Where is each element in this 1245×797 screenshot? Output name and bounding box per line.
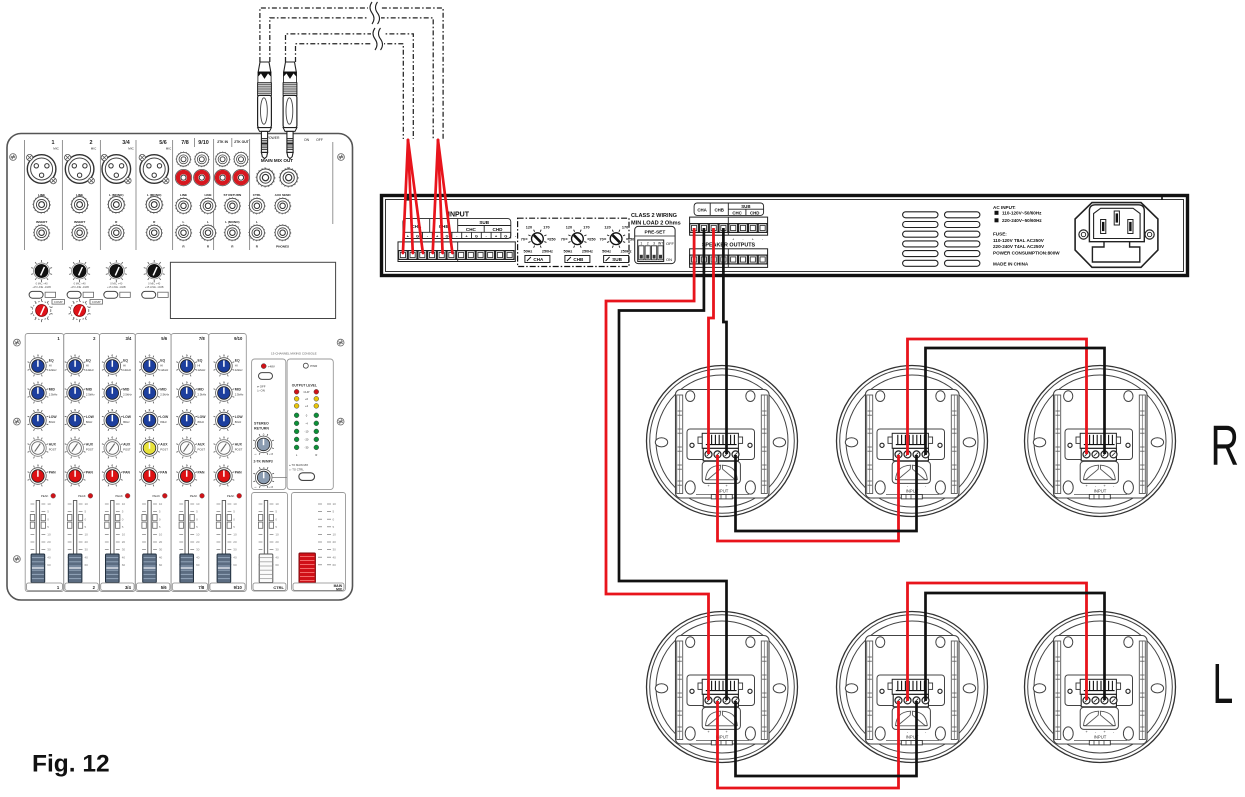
svg-text:12kHz: 12kHz <box>198 368 207 372</box>
svg-text:AUX: AUX <box>198 443 206 447</box>
svg-text:0 MIC +40: 0 MIC +40 <box>74 282 87 286</box>
mixer insert/R jack x=116.3 <box>108 224 125 241</box>
svg-text:AUX: AUX <box>49 443 57 447</box>
cable break symbol on cable L <box>368 3 381 23</box>
amp input screw 9 <box>476 251 485 260</box>
mixer fader CH3/4 <box>105 501 126 583</box>
svg-text:2.5kHz: 2.5kHz <box>160 393 169 397</box>
mixer fader label plate 2 <box>65 583 98 590</box>
mixer row labels MID <box>49 388 244 397</box>
amp speaker output terminal row 2 <box>690 249 768 268</box>
svg-text:G: G <box>475 233 478 238</box>
shielded cable L inner conductor <box>270 18 433 139</box>
svg-text:AUX: AUX <box>160 443 168 447</box>
TRS jack plug R <box>283 62 297 159</box>
svg-text:80Hz: 80Hz <box>86 420 93 424</box>
mixer jack 2TK IN L <box>215 152 230 167</box>
amp input screw 1 <box>399 251 408 260</box>
mixer fader CH9/10 <box>216 501 237 583</box>
svg-text:7/8: 7/8 <box>199 336 205 341</box>
mixer row labels EQ <box>49 359 244 373</box>
svg-text:ON: ON <box>304 138 310 142</box>
svg-text:5/6: 5/6 <box>161 585 167 590</box>
mixer fader label plate 5/6 <box>137 583 170 590</box>
svg-text:30: 30 <box>333 548 337 552</box>
svg-text:POWER CONSUMPTION:800W: POWER CONSUMPTION:800W <box>993 250 1060 255</box>
svg-text:2.5kHz: 2.5kHz <box>198 393 207 397</box>
svg-text:110-120V T8AL AC250V: 110-120V T8AL AC250V <box>993 238 1045 243</box>
mixer insert/R jack x=282.6 <box>274 224 291 241</box>
amp input screw 11 <box>496 251 505 260</box>
svg-text:2TK OUT: 2TK OUT <box>234 140 249 144</box>
svg-text:13-CHANNEL MIXING CONSOLE: 13-CHANNEL MIXING CONSOLE <box>271 352 317 356</box>
amp speaker output screw r1-5 <box>729 224 738 233</box>
mixer meter sub-panel <box>287 359 333 490</box>
mixer insert/R jack x=183.5 <box>175 224 192 241</box>
mixer peak LEDs <box>41 493 242 498</box>
amp crossover section (dashed box) <box>518 218 629 266</box>
svg-text:PAN: PAN <box>86 471 93 475</box>
svg-text:2.5kHz: 2.5kHz <box>235 393 244 397</box>
mixer MID knob CH2 <box>65 383 86 404</box>
svg-text:OUTPUT LEVEL: OUTPUT LEVEL <box>292 384 317 388</box>
mixer LOW knob CH1 <box>28 410 49 431</box>
svg-text:2.5kHz: 2.5kHz <box>49 393 58 397</box>
amp input screw 8 <box>466 251 475 260</box>
svg-text:FUSE:: FUSE: <box>993 232 1007 237</box>
amp speaker output screw r2-5 <box>729 255 738 264</box>
svg-text:+15 LINE -10dB: +15 LINE -10dB <box>145 285 164 289</box>
mixer phantom/return sub-panel <box>252 359 286 490</box>
svg-text:HI: HI <box>123 364 126 368</box>
svg-text:50Hz: 50Hz <box>523 250 532 254</box>
mixer XLR mic input CH4 <box>139 154 169 183</box>
svg-text:12kHz: 12kHz <box>123 368 132 372</box>
shielded cable L (mixer MAIN OUT L to amp) outer conductor <box>260 8 443 139</box>
svg-text:POST: POST <box>49 448 57 452</box>
mixer MAIN MIX strip <box>292 493 346 592</box>
mixer screw at 340.6,342.6 <box>337 339 344 346</box>
svg-text:POST: POST <box>235 448 243 452</box>
mixer PAN knob CH3/4 <box>102 466 123 487</box>
svg-text:CHA: CHA <box>533 257 544 262</box>
amp dip switch 2 <box>645 246 650 260</box>
svg-text:+4: +4 <box>305 404 309 408</box>
amp speaker output screw r2-6 <box>739 255 748 264</box>
svg-text:2TK IN: 2TK IN <box>217 140 228 144</box>
svg-text:50Hz: 50Hz <box>602 250 611 254</box>
svg-text:PEAK: PEAK <box>153 494 161 498</box>
svg-text:SUB: SUB <box>741 204 750 209</box>
svg-text:G: G <box>416 233 419 238</box>
svg-text:EQ: EQ <box>86 359 91 363</box>
mixer screw at 13,157 <box>10 154 17 161</box>
svg-text:7/8: 7/8 <box>181 140 189 146</box>
mixer RCA jack 7/8 R <box>175 169 191 185</box>
svg-text:170: 170 <box>543 226 549 230</box>
svg-text:L (MONO): L (MONO) <box>225 220 239 224</box>
mixer LOW knob CH7/8 <box>176 410 197 431</box>
svg-text:+: + <box>752 238 754 242</box>
amp speaker output screw r2-4 <box>719 255 728 264</box>
mixer line input jack x=116.3 <box>108 196 126 214</box>
mixer blank panel box <box>170 262 335 318</box>
svg-text:EQ: EQ <box>123 359 128 363</box>
svg-text:R: R <box>1211 415 1240 478</box>
wire black: speaker L2 terminal 4 to speaker L3 terminal 3 <box>926 593 1105 701</box>
amp speaker output screw r1-8 <box>758 224 767 233</box>
amp ventilation slots <box>903 212 938 218</box>
svg-text:OFF: OFF <box>316 138 323 142</box>
mixer aux row jack x=183.5 <box>175 198 192 215</box>
mixer MID knob CH7/8 <box>176 383 197 404</box>
svg-text:9/10: 9/10 <box>234 585 243 590</box>
mixer AUX knob CH2 <box>65 438 86 459</box>
wire CHA+ red: amp to speaker L1 terminal 1 <box>606 228 709 700</box>
svg-text:80Hz: 80Hz <box>198 420 205 424</box>
svg-text:+: + <box>732 238 734 242</box>
mixer PAN knob CH2 <box>65 466 86 487</box>
mixer aux row jack x=232.4 <box>224 198 241 215</box>
svg-text:-30: -30 <box>305 446 309 450</box>
svg-text:MIX: MIX <box>336 587 343 591</box>
wire black: speaker R1 terminal 4 to speaker R2 terminal 3 <box>736 455 917 531</box>
mixer RCA jack 9/10 R <box>194 169 210 185</box>
mixer AUX knob CH9/10 <box>214 438 235 459</box>
ceiling speaker R1 <box>647 366 798 517</box>
mixer fader CH7/8 <box>179 501 200 583</box>
mixer CTRL strip <box>252 493 288 592</box>
amp speaker output screw r1-1 <box>690 224 699 233</box>
mixer insert/R jack x=79.6 <box>71 224 88 241</box>
mixer strip number labels top <box>57 336 243 341</box>
svg-text:INSERT: INSERT <box>36 220 47 224</box>
svg-text:MID: MID <box>235 388 242 392</box>
amp input channel label table <box>403 219 511 239</box>
mixer EQ knob CH2 <box>65 356 86 377</box>
svg-text:120: 120 <box>526 226 532 230</box>
amp speaker output screw r1-2 <box>700 224 709 233</box>
amp PRE-SET dip switch box <box>635 226 675 263</box>
svg-text:250Hz: 250Hz <box>582 250 593 254</box>
svg-text:250Hz: 250Hz <box>542 250 553 254</box>
mixer MID knob CH3/4 <box>102 383 123 404</box>
svg-text:ST RETURN: ST RETURN <box>224 193 242 197</box>
svg-text:250Hz: 250Hz <box>621 250 632 254</box>
svg-text:120: 120 <box>566 226 572 230</box>
ceiling speaker L2 <box>837 612 988 763</box>
svg-text:PAN: PAN <box>49 471 56 475</box>
svg-text:AUX: AUX <box>123 443 131 447</box>
mixer insert/R jack x=41.6 <box>33 224 50 241</box>
shielded cable R inner conductor <box>296 44 404 139</box>
svg-text:L: L <box>1213 653 1234 716</box>
svg-text:220-240V T4AL AC250V: 220-240V T4AL AC250V <box>993 244 1045 249</box>
svg-text:INPUT: INPUT <box>448 212 470 219</box>
svg-text:ON: ON <box>666 257 672 262</box>
svg-text:2.5kHz: 2.5kHz <box>123 393 132 397</box>
svg-text:12kHz: 12kHz <box>235 368 244 372</box>
svg-text:LOW: LOW <box>160 415 169 419</box>
svg-text:LOW: LOW <box>86 415 95 419</box>
svg-text:MID: MID <box>86 388 93 392</box>
svg-text:+6: +6 <box>305 397 309 401</box>
wire black: speaker L1 terminal 4 to speaker L2 terminal 3 <box>736 701 917 776</box>
amp input screw 6 <box>447 251 456 260</box>
svg-text:3/4: 3/4 <box>125 336 131 341</box>
amp speaker output screw r1-6 <box>739 224 748 233</box>
mixer fader CH5/6 <box>142 501 163 583</box>
svg-text:PAN: PAN <box>235 471 242 475</box>
wire red: speaker R1 terminal 2 to speaker R2 terminal 1 <box>718 455 899 541</box>
mixer LOW knob CH3/4 <box>102 410 123 431</box>
mixer AUX knob CH1 <box>28 438 49 459</box>
mixer gain knob CH3 <box>106 260 127 282</box>
svg-text:LINE: LINE <box>204 193 211 197</box>
svg-text:EQ: EQ <box>235 359 240 363</box>
svg-text:G: G <box>504 233 507 238</box>
amp input screw 7 <box>457 251 466 260</box>
amp input screw 12 <box>505 251 514 260</box>
svg-text:10: 10 <box>333 502 337 506</box>
mixer fader label plate 3/4 <box>101 583 134 590</box>
mixer gain knob CH2 <box>69 260 90 282</box>
svg-text:250: 250 <box>589 238 595 242</box>
svg-text:PWR: PWR <box>310 364 318 368</box>
svg-text:0 MIC +40: 0 MIC +40 <box>148 282 161 286</box>
svg-text:LOW: LOW <box>198 415 207 419</box>
svg-text:MIN LOAD 2 Ohms: MIN LOAD 2 Ohms <box>631 221 681 227</box>
svg-text:CHC: CHC <box>466 227 477 232</box>
svg-text:CTRL: CTRL <box>273 585 284 590</box>
svg-text:CHA: CHA <box>697 208 707 213</box>
svg-text:MID: MID <box>198 388 205 392</box>
svg-text:CHD: CHD <box>493 227 504 232</box>
svg-text:170: 170 <box>583 226 589 230</box>
amp speaker output screw r2-1 <box>690 255 699 264</box>
svg-text:L: L <box>183 220 185 224</box>
amp crossover knob SUB <box>607 230 625 248</box>
svg-text:RETURN: RETURN <box>254 427 269 431</box>
mixer EQ knob CH3/4 <box>102 356 123 377</box>
amp crossover knob CHB <box>568 230 586 248</box>
mixer AUX knob CH7/8 <box>176 438 197 459</box>
amp speaker output terminal row 1 <box>690 217 768 235</box>
mixer RCA jack 2TK IN R <box>214 169 230 185</box>
input wires fan B (cable L tip to amp CHB terminals) <box>433 140 453 253</box>
mixer LOW knob CH9/10 <box>214 410 235 431</box>
mixer PAN knob CH1 <box>28 466 49 487</box>
svg-text:PAN: PAN <box>160 471 167 475</box>
svg-text:MIC: MIC <box>53 147 59 151</box>
svg-text:220-240V~50/60Hz: 220-240V~50/60Hz <box>1002 218 1042 223</box>
mixer phantom button <box>259 373 273 380</box>
svg-text:POST: POST <box>160 448 168 452</box>
svg-text:G: G <box>445 233 448 238</box>
svg-text:70: 70 <box>521 238 525 242</box>
mixer fader label plate 9/10 <box>210 583 245 590</box>
svg-text:PAN: PAN <box>123 471 130 475</box>
svg-text:CTRL: CTRL <box>253 193 261 197</box>
amp input screw 2 <box>408 251 417 260</box>
mixer low-cut button CH3 <box>104 291 118 298</box>
svg-text:40: 40 <box>333 555 337 559</box>
wire red: speaker R2 terminal 2 to speaker R3 terminal 1 <box>908 339 1087 455</box>
mixer row labels AUX <box>49 443 243 452</box>
mixer line input labels <box>36 193 291 249</box>
amp crossover knob CHA <box>528 230 546 248</box>
amp IEC power inlet <box>1075 203 1158 268</box>
svg-text:MIC: MIC <box>91 147 97 151</box>
mixer low-cut button CH2 <box>67 291 81 298</box>
svg-text:L: L <box>256 220 258 224</box>
svg-text:▷ ON: ▷ ON <box>258 389 265 393</box>
svg-text:70: 70 <box>599 238 603 242</box>
svg-text:5/6: 5/6 <box>159 140 167 146</box>
mixer +48V LED <box>261 364 266 369</box>
mixer line input jack x=41.6 <box>33 196 51 214</box>
svg-text:0 MIC +40: 0 MIC +40 <box>110 282 123 286</box>
svg-text:PEAK: PEAK <box>115 494 123 498</box>
mixer PAN knob CH7/8 <box>176 466 197 487</box>
svg-text:80Hz: 80Hz <box>49 420 56 424</box>
svg-text:120: 120 <box>604 226 610 230</box>
wire red: speaker L2 terminal 2 to speaker L3 terminal 1 <box>908 583 1087 701</box>
mixer PAN knob CH9/10 <box>214 466 235 487</box>
svg-text:+15: +15 <box>269 486 274 489</box>
svg-text:3: 3 <box>653 241 655 245</box>
svg-text:LOW: LOW <box>235 415 244 419</box>
wire CHB- black: amp to speaker R1 terminal 3 <box>723 228 726 454</box>
amp speaker output screw r1-3 <box>709 224 718 233</box>
svg-text:250: 250 <box>549 238 555 242</box>
svg-text:SUB: SUB <box>612 257 622 262</box>
svg-text:COMP: COMP <box>92 300 101 304</box>
ceiling speaker R2 <box>837 366 988 517</box>
mixer AUX knob CH5/6 (yellow) <box>139 438 160 459</box>
mixer insert/R jack x=154.2 <box>146 224 163 241</box>
amp input screw 4 <box>428 251 437 260</box>
mixer PAN knob CH5/6 <box>139 466 160 487</box>
mixer comp knob CH1 <box>31 299 53 322</box>
svg-text:HI: HI <box>160 364 163 368</box>
mixer insert/R jack x=232.4 <box>224 224 241 241</box>
mixer low-cut button CH4 <box>142 291 156 298</box>
mixer MID knob CH9/10 <box>214 383 235 404</box>
svg-text:HI: HI <box>198 364 201 368</box>
svg-text:0 MIC +40: 0 MIC +40 <box>36 282 49 286</box>
svg-text:POST: POST <box>198 448 206 452</box>
wire red: speaker L1 terminal 2 to speaker L2 terminal 1 <box>718 701 899 788</box>
svg-text:INT: INT <box>658 241 663 245</box>
svg-text:50Hz: 50Hz <box>563 250 572 254</box>
svg-text:110-120V~50/60Hz: 110-120V~50/60Hz <box>1002 211 1042 216</box>
svg-text:3/4: 3/4 <box>122 140 130 146</box>
mixer EQ knob CH5/6 <box>139 356 160 377</box>
svg-text:SUB: SUB <box>479 220 489 225</box>
svg-text:▸ TO MAIN MIX: ▸ TO MAIN MIX <box>290 463 309 467</box>
svg-text:+15 LINE -10dB: +15 LINE -10dB <box>32 285 51 289</box>
amp speaker output screw r2-2 <box>700 255 709 264</box>
svg-text:PEAK: PEAK <box>190 494 198 498</box>
svg-text:12kHz: 12kHz <box>86 368 95 372</box>
svg-text:POST: POST <box>86 448 94 452</box>
amp speaker output screw r1-7 <box>748 224 757 233</box>
wire CHA- black: amp to speaker L1 terminal 3 <box>619 228 727 700</box>
svg-text:CLASS 2 WIRING: CLASS 2 WIRING <box>631 213 677 219</box>
mixer row labels PAN <box>49 471 242 475</box>
mixer line input jack x=79.6 <box>71 196 89 214</box>
svg-text:+48V: +48V <box>268 365 275 369</box>
power amplifier chassis <box>382 196 1188 276</box>
mixer EQ knob CH1 <box>28 356 49 377</box>
svg-text:+15 LINE -10dB: +15 LINE -10dB <box>107 285 126 289</box>
svg-text:POST: POST <box>123 448 131 452</box>
mixer insert/R jack x=256.9 <box>249 224 266 241</box>
svg-text:AUX: AUX <box>235 443 243 447</box>
mixer screw at 16.9,559 <box>14 556 21 563</box>
ceiling speaker L1 <box>647 612 798 763</box>
mixer PWR LED <box>303 363 308 368</box>
svg-text:STEREO: STEREO <box>254 422 269 426</box>
svg-text:AC INPUT:: AC INPUT: <box>993 205 1016 210</box>
svg-text:PEAK: PEAK <box>227 494 235 498</box>
svg-text:2.5kHz: 2.5kHz <box>86 393 95 397</box>
amp input terminal block <box>398 242 515 262</box>
wire black: speaker R2 terminal 4 to speaker R3 terminal 3 <box>926 348 1105 455</box>
svg-text:80Hz: 80Hz <box>235 420 242 424</box>
svg-text:+15 LINE -10dB: +15 LINE -10dB <box>70 285 89 289</box>
svg-text:Fig. 12: Fig. 12 <box>32 751 110 778</box>
svg-text:CLIP: CLIP <box>304 390 310 394</box>
svg-text:L: L <box>207 220 209 224</box>
svg-text:2: 2 <box>647 241 649 245</box>
mixer LOW knob CH2 <box>65 410 86 431</box>
svg-text:PAN: PAN <box>198 471 205 475</box>
svg-text:COMP: COMP <box>54 300 63 304</box>
svg-text:HI: HI <box>86 364 89 368</box>
mixer comp knob CH2 <box>69 299 91 322</box>
mixer EQ knob CH9/10 <box>214 356 235 377</box>
mixer XLR mic input CH2 <box>65 154 95 183</box>
shielded cable R (mixer MAIN OUT R to amp) outer conductor <box>286 34 414 139</box>
TRS jack plug L <box>258 62 272 159</box>
mixer EQ knob CH7/8 <box>176 356 197 377</box>
svg-text:HI: HI <box>235 364 238 368</box>
mixer console body <box>7 134 353 601</box>
svg-text:250: 250 <box>628 238 634 242</box>
svg-text:LINE: LINE <box>180 193 187 197</box>
svg-text:OFF: OFF <box>666 241 675 246</box>
mixer MAIN MIX OUT labels <box>261 158 293 171</box>
mixer AUX knob CH3/4 <box>102 438 123 459</box>
mixer jack 7/8 L <box>176 152 191 167</box>
svg-text:EQ: EQ <box>49 359 54 363</box>
mixer aux row jack x=208 <box>200 198 217 215</box>
mixer gain knob CH1 <box>31 260 52 282</box>
amp speaker output screw r2-3 <box>709 255 718 264</box>
svg-text:9/10: 9/10 <box>198 140 209 146</box>
mixer fader label plate 7/8 <box>172 583 207 590</box>
ceiling speaker L3 <box>1025 612 1176 763</box>
wire CHB+ red: amp to speaker R1 terminal 1 <box>709 228 714 454</box>
svg-text:1: 1 <box>640 241 642 245</box>
amp input screw 3 <box>418 251 427 260</box>
svg-text:CHB: CHB <box>714 208 724 213</box>
mixer fader label plate 1 <box>26 583 62 590</box>
svg-text:5/6: 5/6 <box>161 336 167 341</box>
amp speaker output screw r2-7 <box>748 255 757 264</box>
